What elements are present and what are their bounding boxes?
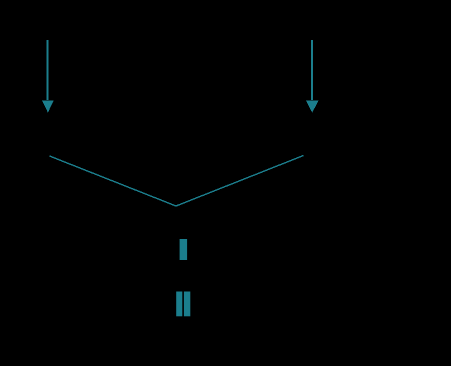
left arrow (downward) xyxy=(42,40,54,113)
right arrow (downward) xyxy=(306,40,319,113)
right bond line xyxy=(176,156,304,207)
left bond line xyxy=(50,156,177,206)
double vertical bar: left stroke xyxy=(176,292,182,317)
double vertical bar: right stroke xyxy=(184,292,190,317)
single vertical bar xyxy=(180,239,188,260)
